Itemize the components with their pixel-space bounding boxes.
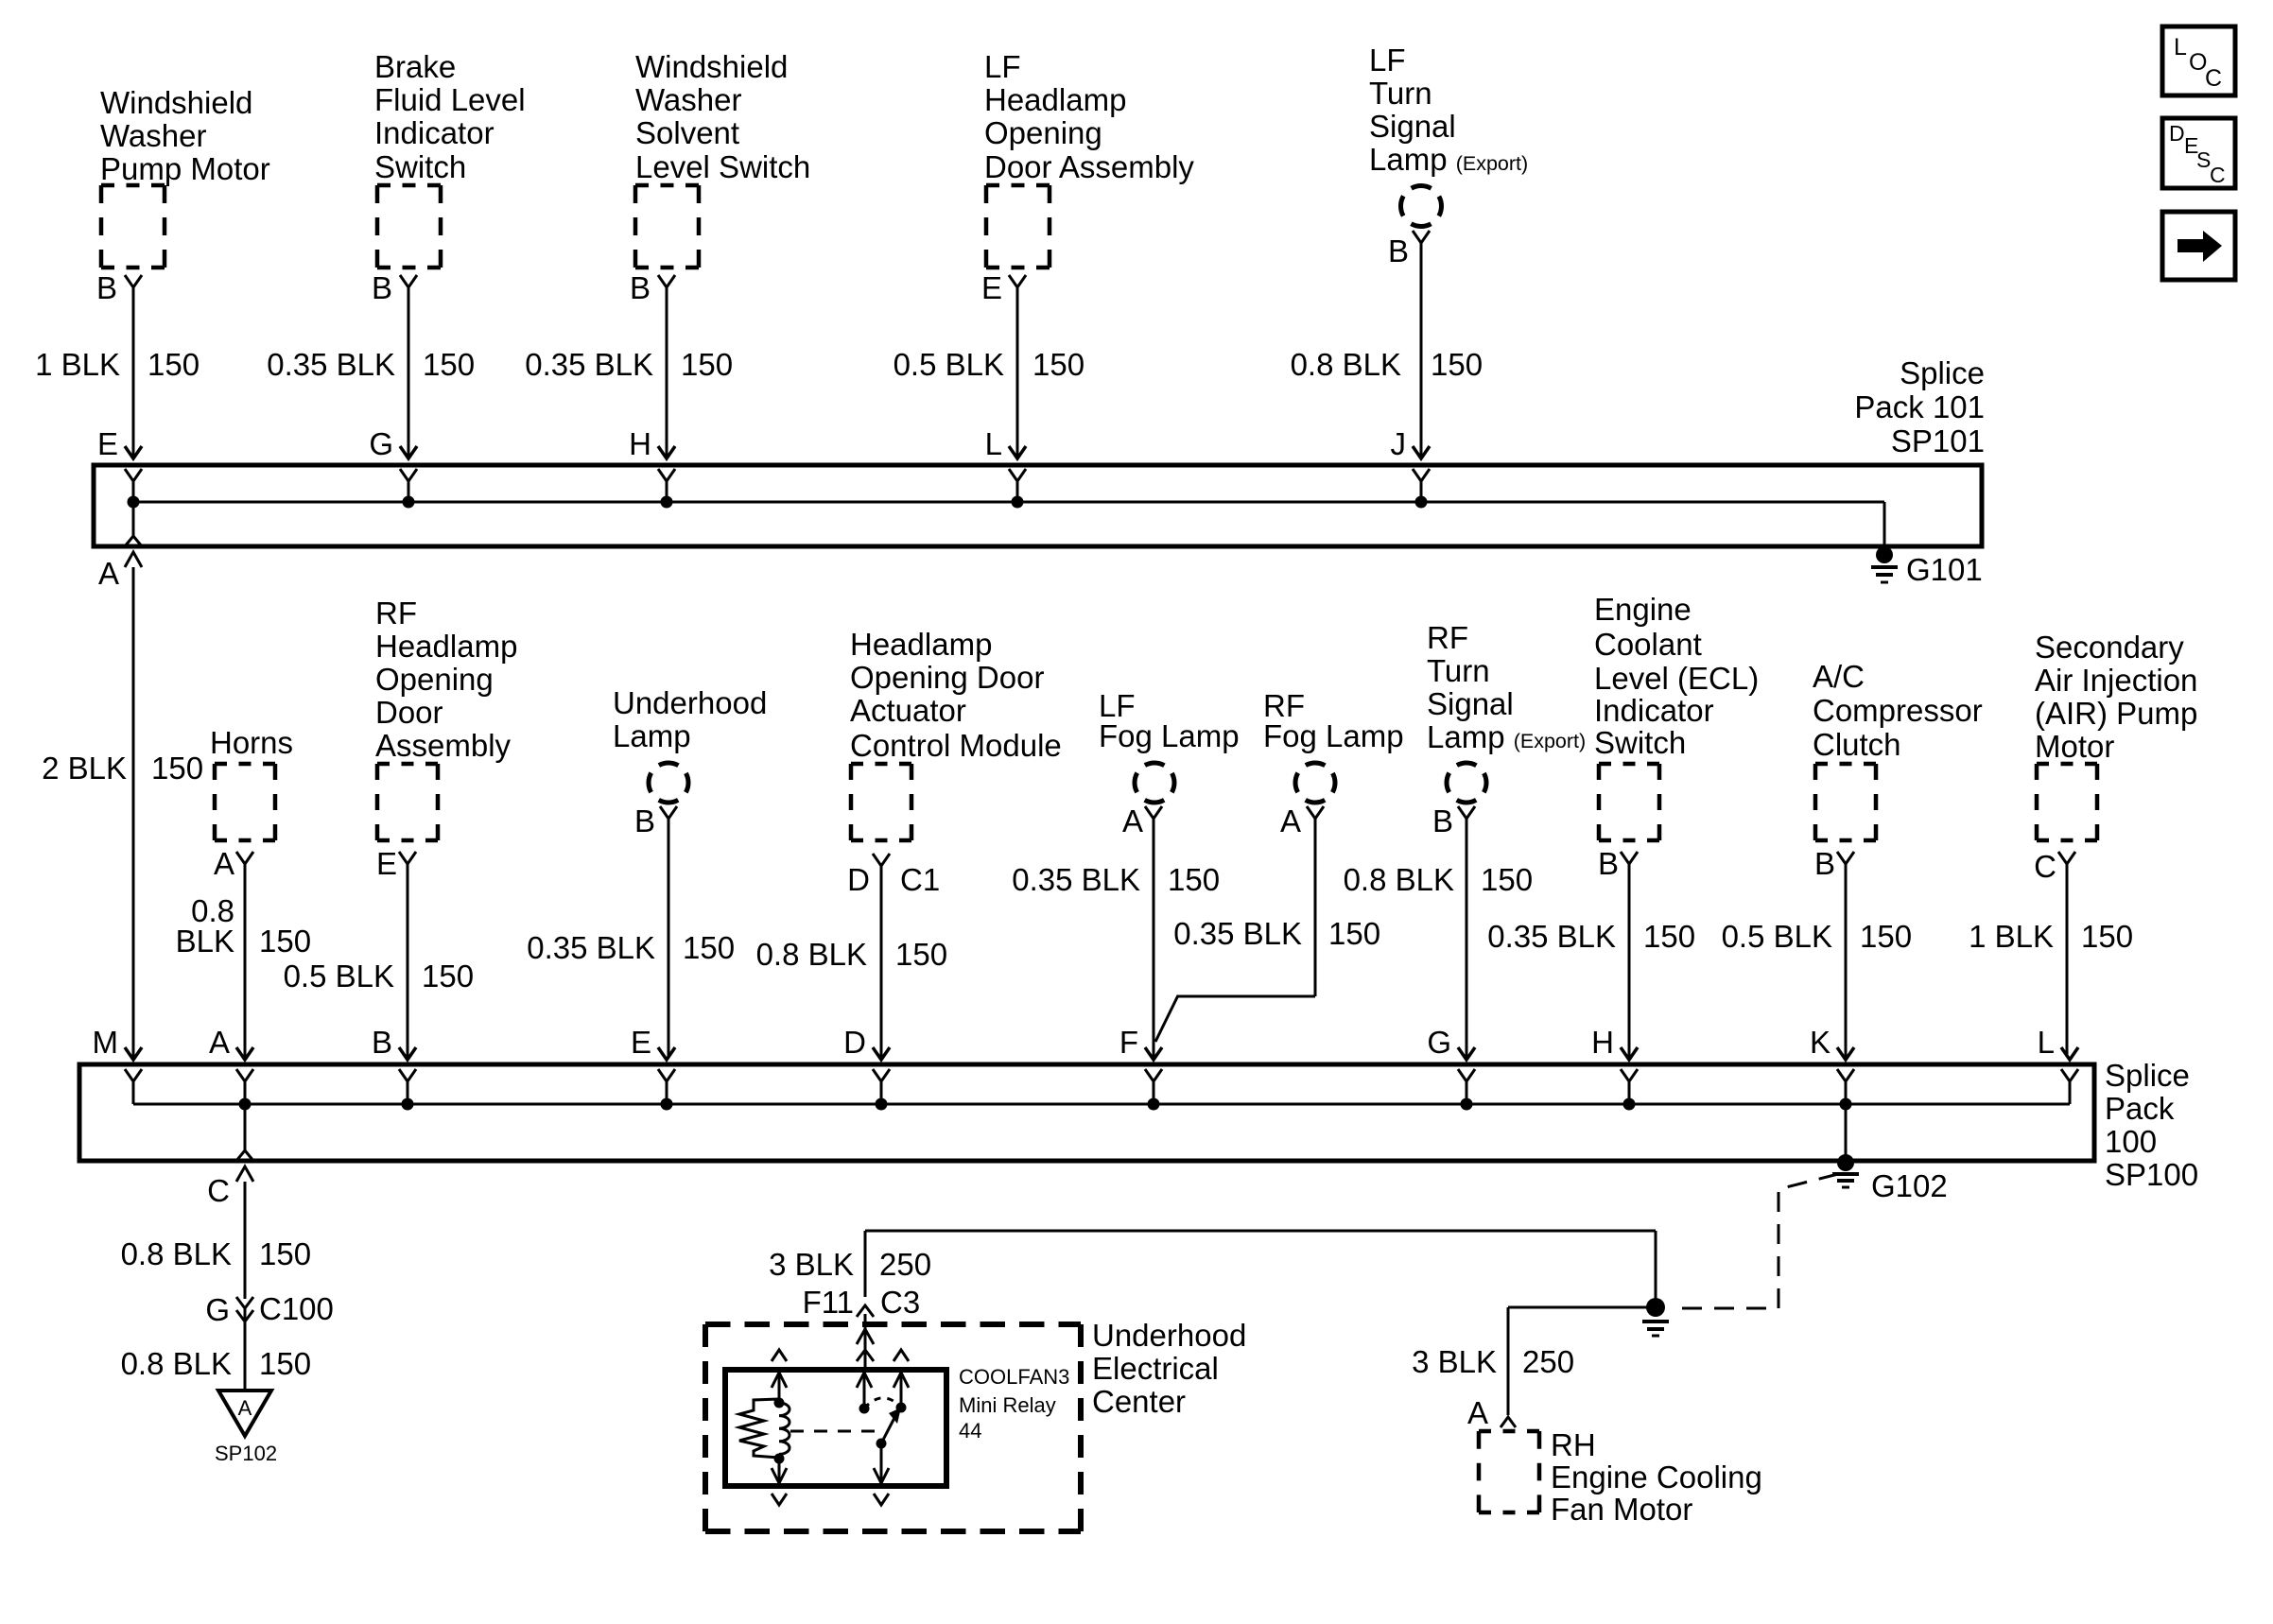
wire: Brake Fluid Switch B to SP101 pin G (0.35 BLK 150) — [400, 287, 417, 458]
svg-text:150: 150 — [423, 347, 475, 382]
svg-text:Motor: Motor — [2035, 729, 2114, 764]
svg-text:Solvent: Solvent — [635, 115, 739, 150]
pin A of RH Engine Cooling Fan Motor — [1467, 1395, 1516, 1430]
junction dot (coil top) — [774, 1398, 785, 1408]
svg-text:D: D — [2169, 121, 2185, 146]
svg-text:Level Switch: Level Switch — [635, 149, 810, 184]
component: RF Headlamp Opening Door Assembly — [375, 596, 517, 840]
svg-text:3 BLK: 3 BLK — [769, 1247, 854, 1282]
svg-text:Fog Lamp: Fog Lamp — [1099, 718, 1240, 753]
svg-text:Center: Center — [1092, 1384, 1186, 1419]
svg-text:150: 150 — [1860, 919, 1912, 954]
svg-text:100: 100 — [2105, 1124, 2157, 1159]
svg-text:150: 150 — [1431, 347, 1483, 382]
pin B of A/C Compressor Clutch — [1814, 846, 1854, 881]
pin B of LF Turn Signal Lamp — [1388, 231, 1430, 268]
svg-text:G: G — [205, 1292, 230, 1327]
svg-text:Compressor: Compressor — [1813, 693, 1983, 728]
svg-text:E: E — [376, 846, 397, 881]
dashed actuation line coil to switch — [790, 1430, 876, 1433]
svg-text:SP100: SP100 — [2105, 1157, 2198, 1192]
svg-text:150: 150 — [895, 937, 947, 972]
svg-text:B: B — [630, 270, 651, 305]
svg-text:Brake: Brake — [374, 49, 456, 84]
svg-text:Turn: Turn — [1427, 653, 1490, 688]
svg-text:B: B — [1388, 233, 1409, 268]
svg-text:M: M — [93, 1025, 119, 1060]
wire: LF Fog Lamp A to SP100 pin F (0.35 BLK 150) — [1153, 819, 1155, 1057]
pin E of LF Headlamp Opening Door Assembly — [981, 270, 1026, 305]
svg-text:G102: G102 — [1871, 1168, 1948, 1203]
svg-text:Actuator: Actuator — [850, 693, 966, 728]
svg-text:1 BLK: 1 BLK — [1969, 919, 2054, 954]
pin E (SP101 entry) — [97, 426, 142, 502]
svg-text:Underhood: Underhood — [1092, 1318, 1246, 1353]
svg-text:A: A — [98, 556, 119, 591]
svg-text:RH: RH — [1551, 1427, 1596, 1462]
junction dot at SP100 pin E — [661, 1098, 673, 1111]
junction dot (switch common) — [859, 1404, 870, 1414]
label: 0.8 BLK 150 — [1291, 347, 1483, 382]
ground G101 — [1871, 546, 1983, 587]
svg-text:Lamp: Lamp — [613, 718, 691, 753]
wire: ground junction to RH fan motor A (3 BLK 250) — [1508, 1307, 1656, 1415]
pin B of Washer Solvent Level Switch — [630, 270, 675, 305]
component: Headlamp Opening Door Actuator Control Module — [850, 627, 1062, 840]
junction dot at SP101 pin L — [1012, 496, 1024, 509]
svg-text:C: C — [2210, 163, 2226, 187]
svg-text:0.5 BLK: 0.5 BLK — [284, 959, 394, 993]
svg-text:A: A — [1467, 1395, 1488, 1430]
svg-text:Splice: Splice — [2105, 1058, 2190, 1093]
svg-text:B: B — [634, 803, 655, 838]
svg-text:0.35 BLK: 0.35 BLK — [1173, 916, 1302, 951]
legend box: DESC — [2162, 118, 2235, 188]
junction dot (switch NO) — [896, 1403, 907, 1413]
svg-text:Fluid Level: Fluid Level — [374, 82, 526, 117]
wire: A/C Clutch B to SP100 pin K (0.5 BLK 150) — [1845, 864, 1848, 1057]
label: Underhood Electrical Center — [1092, 1318, 1246, 1419]
wire: RF Headlamp Door E to SP100 pin B (0.5 BLK 150) — [407, 864, 409, 1057]
svg-text:Headlamp: Headlamp — [375, 629, 517, 664]
svg-text:LF: LF — [1369, 43, 1406, 78]
svg-text:150: 150 — [259, 1236, 311, 1271]
wire: SP101 A to SP100 M (2 BLK 150) — [132, 567, 135, 1057]
svg-text:Secondary: Secondary — [2035, 630, 2184, 665]
svg-text:C3: C3 — [880, 1285, 920, 1320]
resistor (parallel with coil) — [739, 1399, 779, 1458]
wire: Horns A to SP100 pin A (0.8 BLK 150) — [244, 864, 247, 1057]
pin G (SP100 entry) — [1427, 1025, 1475, 1104]
svg-text:C1: C1 — [900, 862, 940, 897]
splice SP102 (triangle A) — [215, 1391, 277, 1465]
splice pack SP101 box — [94, 465, 1982, 546]
pin G (SP101 entry) — [369, 426, 417, 502]
svg-text:A: A — [1122, 803, 1143, 838]
wire: Actuator Module D to SP100 pin D (0.8 BLK 150) — [880, 866, 883, 1057]
junction dot at SP101 pin J — [1415, 496, 1428, 509]
wire: Underhood Lamp B to SP100 pin E (0.35 BLK 150) — [668, 819, 670, 1057]
wire: Solvent Level Switch B to SP101 pin H (0.35 BLK 150) — [658, 287, 675, 458]
legend box: continuation arrow — [2162, 212, 2235, 280]
svg-text:BLK: BLK — [176, 924, 234, 959]
svg-text:Headlamp: Headlamp — [850, 627, 992, 662]
svg-text:0.8 BLK: 0.8 BLK — [121, 1346, 232, 1381]
wire: LF Turn Signal B to SP101 pin J (0.8 BLK 150) — [1413, 242, 1430, 458]
svg-text:0.35 BLK: 0.35 BLK — [525, 347, 653, 382]
svg-text:Underhood: Underhood — [613, 685, 767, 720]
label: Splice Pack 100 SP100 — [2105, 1058, 2198, 1192]
label: 0.8 BLK 150 — [121, 1346, 311, 1381]
svg-text:Signal: Signal — [1369, 109, 1456, 144]
svg-text:A/C: A/C — [1813, 659, 1865, 694]
connector C100 pin G — [205, 1291, 334, 1327]
label: 0.8 BLK 150 — [121, 1236, 311, 1271]
connector F11 / C3 — [803, 1285, 921, 1320]
svg-text:1 BLK: 1 BLK — [35, 347, 120, 382]
pin H (SP101 entry) — [629, 426, 675, 502]
pin J (SP101 entry) — [1391, 426, 1431, 502]
svg-text:Door: Door — [375, 695, 443, 730]
svg-text:250: 250 — [879, 1247, 931, 1282]
svg-text:0.8 BLK: 0.8 BLK — [756, 937, 867, 972]
svg-text:SP102: SP102 — [215, 1442, 277, 1465]
relay coil — [779, 1403, 789, 1454]
svg-text:G: G — [1427, 1025, 1451, 1060]
svg-text:C100: C100 — [259, 1291, 334, 1326]
svg-text:B: B — [1432, 803, 1453, 838]
wire: SP100 C to connector C100 (0.8 BLK 150) — [244, 1182, 247, 1299]
junction dot at SP101 pin H — [661, 496, 673, 509]
relay switch blade — [881, 1408, 901, 1443]
svg-text:Indicator: Indicator — [1594, 693, 1714, 728]
junction dot (coil bottom) — [774, 1454, 785, 1464]
component: LF Turn Signal Lamp (Export) — [1369, 43, 1528, 227]
svg-text:A: A — [238, 1396, 252, 1420]
label: 0.8 BLK 150 — [176, 893, 311, 959]
component: Engine Coolant Level (ECL) Indicator Switch — [1594, 592, 1759, 840]
svg-text:Pack: Pack — [2105, 1091, 2175, 1126]
component: Windshield Washer Solvent Level Switch — [635, 49, 810, 268]
splice pack SP100 box — [79, 1064, 2094, 1161]
junction dot at SP100 pin K — [1840, 1098, 1852, 1111]
wire: ECL Switch B to SP100 pin H (0.35 BLK 150) — [1628, 864, 1631, 1057]
junction dot at SP100 pin A — [239, 1098, 252, 1111]
pin L (SP101 entry) — [985, 426, 1026, 502]
label: COOLFAN3 Mini Relay 44 — [959, 1365, 1069, 1443]
svg-text:150: 150 — [681, 347, 733, 382]
svg-text:0.35 BLK: 0.35 BLK — [1487, 919, 1616, 954]
label: 0.8 BLK 150 — [756, 937, 947, 972]
label: 0.35 BLK 150 — [1487, 919, 1695, 954]
svg-text:150: 150 — [422, 959, 474, 993]
label: 0.5 BLK 150 — [284, 959, 474, 993]
component: Horns — [210, 725, 293, 840]
svg-text:Opening: Opening — [984, 115, 1102, 150]
svg-text:Opening Door: Opening Door — [850, 660, 1044, 695]
label: 0.35 BLK 150 — [1173, 916, 1380, 951]
svg-text:150: 150 — [1328, 916, 1380, 951]
pin A (SP101 exit) — [98, 502, 142, 591]
label: Splice Pack 101 SP101 — [1854, 355, 1985, 458]
dashed link between switch contacts — [864, 1398, 901, 1408]
junction dot at SP101 pin G — [403, 496, 415, 509]
pin C of AIR Pump Motor — [2034, 849, 2075, 884]
svg-text:D: D — [843, 1025, 866, 1060]
wire: Pump Motor B to SP101 pin E (1 BLK 150) — [125, 287, 142, 458]
wire: RF Turn Signal B to SP100 pin G (0.8 BLK 150) — [1466, 819, 1468, 1057]
svg-text:Turn: Turn — [1369, 76, 1432, 111]
svg-text:C: C — [2034, 849, 2056, 884]
pin A of RF Fog Lamp — [1280, 803, 1324, 838]
svg-text:C: C — [2205, 65, 2222, 92]
pin B of Brake Fluid Level Indicator Switch — [372, 270, 417, 305]
svg-text:Washer: Washer — [635, 82, 741, 117]
svg-text:150: 150 — [259, 924, 311, 959]
pin A of Horns — [214, 846, 253, 881]
label: 3 BLK 250 — [769, 1247, 931, 1282]
label: 1 BLK 150 — [1969, 919, 2133, 954]
pin A of LF Fog Lamp — [1122, 803, 1162, 838]
svg-text:Splice: Splice — [1900, 355, 1985, 390]
junction dot at SP100 pin G — [1461, 1098, 1473, 1111]
pin H (SP100 entry) — [1591, 1025, 1638, 1104]
relay switch output terminal (bottom) — [874, 1443, 889, 1505]
svg-text:K: K — [1810, 1025, 1831, 1060]
component: LF Fog Lamp — [1099, 688, 1240, 803]
svg-text:0.5 BLK: 0.5 BLK — [894, 347, 1004, 382]
svg-text:RF: RF — [1427, 620, 1468, 655]
svg-text:Pack 101: Pack 101 — [1854, 389, 1985, 424]
component: A/C Compressor Clutch — [1813, 659, 1983, 840]
svg-text:L: L — [2038, 1025, 2055, 1060]
svg-text:0.8 BLK: 0.8 BLK — [1291, 347, 1401, 382]
svg-text:0.5 BLK: 0.5 BLK — [1722, 919, 1832, 954]
wire: UEC C3 up and over to ground junction (3 BLK 250) — [865, 1231, 1656, 1299]
dashed wire: G102 to fan ground junction — [1672, 1174, 1838, 1308]
svg-text:SP101: SP101 — [1891, 423, 1985, 458]
svg-text:F: F — [1119, 1025, 1138, 1060]
svg-text:Air Injection: Air Injection — [2035, 663, 2197, 698]
svg-text:D: D — [847, 862, 870, 897]
relay switch common terminal (from C3) — [857, 1370, 872, 1408]
relay coil terminal (top) — [772, 1350, 787, 1403]
svg-text:Clutch: Clutch — [1813, 727, 1901, 762]
pin A (SP100 entry) — [209, 1025, 253, 1104]
svg-text:H: H — [629, 426, 651, 461]
pin B of RF Turn Signal Lamp — [1432, 803, 1475, 838]
wire: AIR Pump Motor C to SP100 pin L (1 BLK 150) — [2066, 864, 2069, 1057]
svg-text:L: L — [985, 426, 1002, 461]
component: Underhood Lamp — [613, 685, 767, 803]
svg-text:250: 250 — [1522, 1344, 1574, 1379]
svg-text:Signal: Signal — [1427, 686, 1514, 721]
wire: C100 to splice SP102 (0.8 BLK 150) — [244, 1308, 247, 1391]
relay switch NO terminal — [894, 1350, 909, 1408]
wire: C3 into Underhood Electrical Center — [857, 1314, 874, 1370]
component: RH Engine Cooling Fan Motor — [1479, 1427, 1762, 1527]
svg-text:Fan Motor: Fan Motor — [1551, 1492, 1692, 1527]
svg-text:E: E — [631, 1025, 651, 1060]
label: 0.35 BLK 150 — [525, 347, 733, 382]
svg-text:A: A — [209, 1025, 230, 1060]
component: Brake Fluid Level Indicator Switch — [374, 49, 526, 268]
svg-text:B: B — [372, 1025, 392, 1060]
svg-text:Electrical: Electrical — [1092, 1351, 1219, 1386]
pin D (SP100 entry) — [843, 1025, 890, 1104]
label: 3 BLK 250 — [1412, 1344, 1574, 1379]
svg-text:150: 150 — [151, 751, 203, 786]
svg-text:F11: F11 — [803, 1285, 854, 1320]
svg-text:0.8 BLK: 0.8 BLK — [121, 1236, 232, 1271]
svg-text:C: C — [207, 1173, 230, 1208]
wire: SP100 pin K stem to ground G102 — [1845, 1104, 1848, 1161]
svg-text:Opening: Opening — [375, 662, 494, 697]
pin C (SP100 exit) — [207, 1104, 253, 1208]
ground symbol at fan junction — [1642, 1322, 1669, 1336]
svg-text:B: B — [1598, 846, 1619, 881]
pin B of Windshield Washer Pump Motor — [96, 270, 142, 305]
svg-text:Door Assembly: Door Assembly — [984, 149, 1194, 184]
pin E (SP100 entry) — [631, 1025, 675, 1104]
svg-text:Headlamp: Headlamp — [984, 82, 1126, 117]
component: LF Headlamp Opening Door Assembly — [984, 49, 1194, 268]
svg-text:Fog Lamp: Fog Lamp — [1263, 718, 1404, 753]
label: 0.8 BLK 150 — [1344, 862, 1533, 897]
svg-text:3 BLK: 3 BLK — [1412, 1344, 1497, 1379]
svg-text:150: 150 — [2081, 919, 2133, 954]
label: 1 BLK 150 — [35, 347, 200, 382]
junction dot at SP100 pin H — [1623, 1098, 1636, 1111]
label: 0.5 BLK 150 — [894, 347, 1084, 382]
svg-text:L: L — [2174, 34, 2187, 60]
pin B of Underhood Lamp — [634, 803, 677, 838]
junction dot at SP100 pin F — [1148, 1098, 1160, 1111]
svg-text:Coolant: Coolant — [1594, 627, 1702, 662]
svg-text:150: 150 — [1643, 919, 1695, 954]
component: RF Fog Lamp — [1263, 688, 1404, 803]
svg-text:Windshield: Windshield — [635, 49, 788, 84]
pin D / connector C1 of Actuator Control Module — [847, 854, 940, 897]
svg-text:A: A — [214, 846, 234, 881]
svg-text:E: E — [981, 270, 1002, 305]
wire: LF Headlamp Door E to SP101 pin L (0.5 BLK 150) — [1009, 287, 1026, 458]
pin E of RF Headlamp Opening Door Assembly — [376, 846, 416, 881]
svg-text:Mini Relay: Mini Relay — [959, 1393, 1056, 1417]
label: 2 BLK 150 — [42, 751, 203, 786]
svg-text:150: 150 — [259, 1346, 311, 1381]
junction dot at SP100 pin B — [402, 1098, 414, 1111]
label: 0.5 BLK 150 — [1722, 919, 1912, 954]
svg-text:44: 44 — [959, 1419, 981, 1443]
pin B of ECL Indicator Switch — [1598, 846, 1638, 881]
junction dot (switch pivot) — [876, 1439, 887, 1449]
wire: RF Fog Lamp A joins LF fog wire at SP100 pin F (0.35 BLK 150) — [1155, 819, 1315, 1042]
svg-text:0.35 BLK: 0.35 BLK — [527, 930, 655, 965]
component: Windshield Washer Pump Motor — [100, 85, 270, 268]
svg-text:150: 150 — [1481, 862, 1533, 897]
label: 0.35 BLK 150 — [527, 930, 735, 965]
svg-text:0.8 BLK: 0.8 BLK — [1344, 862, 1454, 897]
relay K44 COOLFAN3 box — [725, 1370, 946, 1486]
relay coil terminal (bottom) — [772, 1459, 787, 1505]
svg-text:Level (ECL): Level (ECL) — [1594, 661, 1759, 696]
svg-text:RF: RF — [375, 596, 417, 631]
legend box: LOC — [2162, 26, 2235, 95]
svg-text:LF: LF — [984, 49, 1021, 84]
junction dot at SP101 pin E — [128, 496, 140, 509]
svg-text:(AIR) Pump: (AIR) Pump — [2035, 696, 2197, 731]
svg-text:J: J — [1391, 426, 1407, 461]
svg-text:0.35 BLK: 0.35 BLK — [1012, 862, 1140, 897]
pin K (SP100 entry) — [1810, 1025, 1854, 1104]
svg-text:Control Module: Control Module — [850, 728, 1062, 763]
svg-text:B: B — [372, 270, 392, 305]
svg-text:G: G — [369, 426, 393, 461]
pin M (SP100 entry) — [93, 1025, 143, 1104]
svg-text:B: B — [96, 270, 117, 305]
label: 0.35 BLK 150 — [267, 347, 475, 382]
svg-text:150: 150 — [1168, 862, 1220, 897]
svg-text:150: 150 — [683, 930, 735, 965]
component: RF Turn Signal Lamp (Export) — [1427, 620, 1586, 803]
svg-text:Windshield: Windshield — [100, 85, 252, 120]
svg-text:Engine: Engine — [1594, 592, 1692, 627]
SP101 internal bus wire — [133, 502, 1884, 554]
svg-text:Washer: Washer — [100, 118, 206, 153]
svg-text:H: H — [1591, 1025, 1614, 1060]
pin F (SP100 entry) — [1119, 1025, 1162, 1104]
ground junction dot (engine cooling fan ground) — [1646, 1298, 1665, 1317]
label: 0.35 BLK 150 — [1012, 862, 1220, 897]
ground G102 — [1832, 1154, 1948, 1203]
svg-text:Switch: Switch — [1594, 725, 1686, 760]
component: Secondary Air Injection (AIR) Pump Motor — [2035, 630, 2197, 840]
svg-text:Pump Motor: Pump Motor — [100, 151, 270, 186]
junction dot at SP100 pin D — [876, 1098, 888, 1111]
svg-text:Engine Cooling: Engine Cooling — [1551, 1460, 1762, 1494]
svg-text:COOLFAN3: COOLFAN3 — [959, 1365, 1069, 1389]
svg-text:Assembly: Assembly — [375, 728, 512, 763]
svg-text:Switch: Switch — [374, 149, 466, 184]
svg-text:2 BLK: 2 BLK — [42, 751, 127, 786]
pin B (SP100 entry) — [372, 1025, 416, 1104]
svg-text:G101: G101 — [1906, 552, 1983, 587]
SP100 internal bus wire — [133, 1103, 2070, 1106]
component box: Underhood Electrical Center (dashed) — [705, 1324, 1081, 1531]
svg-text:0.35 BLK: 0.35 BLK — [267, 347, 395, 382]
svg-text:Indicator: Indicator — [374, 115, 495, 150]
svg-text:B: B — [1814, 846, 1835, 881]
pin L (SP100 entry) — [2038, 1025, 2078, 1104]
svg-text:Horns: Horns — [210, 725, 293, 760]
svg-text:E: E — [97, 426, 118, 461]
svg-text:150: 150 — [1032, 347, 1084, 382]
svg-text:150: 150 — [147, 347, 200, 382]
svg-text:A: A — [1280, 803, 1301, 838]
